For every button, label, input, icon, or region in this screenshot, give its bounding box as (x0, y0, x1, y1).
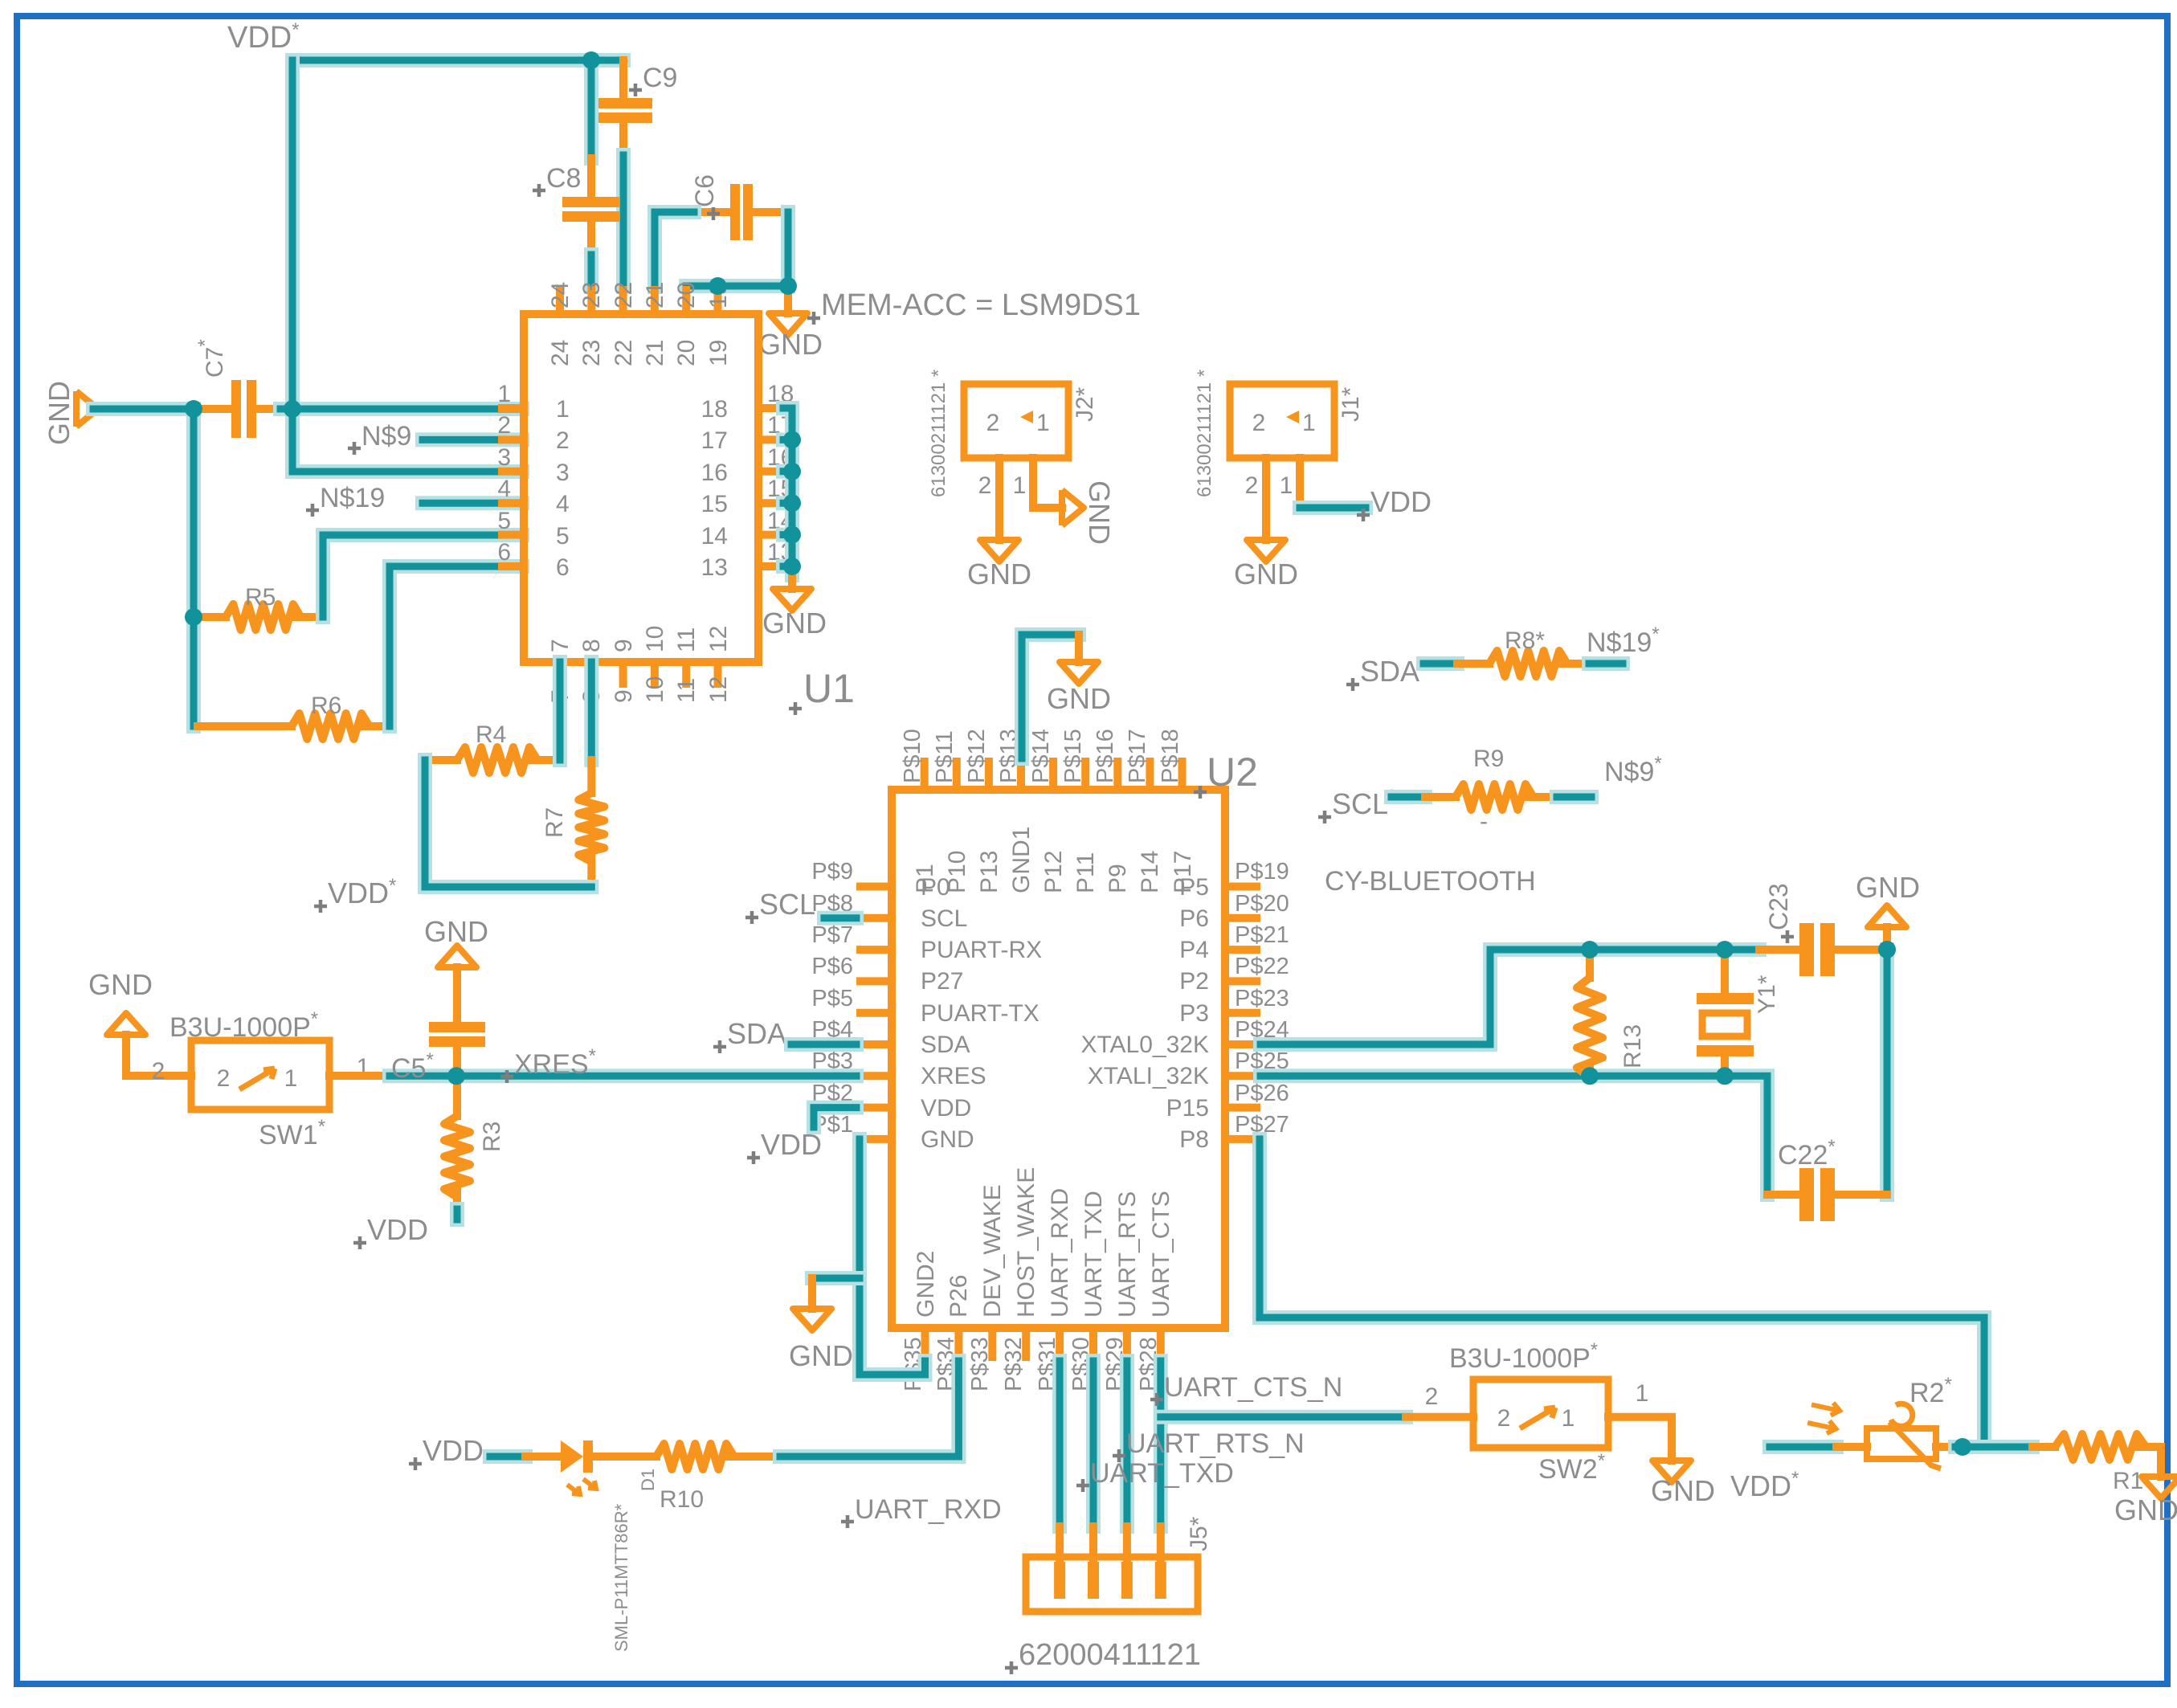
svg-text:9: 9 (611, 689, 637, 703)
junction VDD/pin1 row (284, 400, 301, 418)
wire C6 left to U1 pin 21 (655, 212, 694, 287)
resistor R5 (199, 604, 323, 630)
net label SCL (R9) (1318, 786, 1395, 823)
ground GND (crystal net) (1868, 905, 1906, 927)
svg-text:GND: GND (921, 1126, 974, 1153)
svg-text:1: 1 (1036, 410, 1050, 436)
svg-text:17: 17 (701, 427, 728, 454)
crystal Y1 (1697, 950, 1754, 1076)
wire GND to C7 (93, 402, 194, 416)
svg-text:3: 3 (556, 460, 570, 486)
wire U2 P$1 GND down (860, 1139, 925, 1375)
svg-text:U1: U1 (803, 666, 855, 711)
svg-text:10: 10 (642, 676, 668, 703)
U2 pin stubs (856, 758, 1260, 1361)
resistor R13 (1577, 950, 1603, 1077)
resistor R4 (425, 747, 560, 773)
svg-text:2: 2 (152, 1058, 165, 1085)
svg-text:N$19: N$19 (320, 483, 385, 513)
svg-text:20: 20 (673, 282, 700, 309)
wire U2 P$31 to J5 (1052, 1361, 1067, 1526)
svg-text:23: 23 (578, 340, 605, 366)
wire U1 pins 19 20 GND row (686, 279, 788, 293)
svg-text:5: 5 (497, 508, 511, 534)
svg-text:C22*: C22* (1778, 1136, 1836, 1171)
wire C7 to U1 pin 1 (280, 402, 522, 416)
svg-text:P10: P10 (944, 851, 970, 893)
svg-text:UART_CTS: UART_CTS (1148, 1191, 1174, 1318)
svg-text:N$9*: N$9* (1604, 753, 1662, 787)
junction R2/R1/P$27 (1954, 1438, 1971, 1456)
svg-text:GND1: GND1 (1008, 827, 1035, 893)
svg-text:GND: GND (1651, 1474, 1715, 1507)
U1 pin numbers (497, 282, 794, 703)
svg-text:2: 2 (978, 472, 992, 499)
J5 pin lead P$30 (1089, 1526, 1097, 1562)
connector J1 body (1230, 384, 1334, 458)
label C8 (533, 163, 581, 197)
net label UART_CTS_N (1150, 1372, 1342, 1406)
junction C23 right / GND (1878, 941, 1896, 958)
svg-text:1: 1 (1302, 410, 1316, 436)
net label VDD (LED) (409, 1434, 484, 1470)
crystal gnd lead (1883, 927, 1891, 950)
svg-text:1: 1 (1280, 472, 1293, 499)
IC U2 body (892, 790, 1225, 1328)
SW1 inside symbols (217, 1065, 298, 1092)
svg-text:UART_TXD: UART_TXD (1090, 1458, 1234, 1489)
label R2 (1909, 1374, 1952, 1408)
ground GND (below U2 P$1) (789, 1309, 853, 1372)
svg-text:GND: GND (2114, 1493, 2177, 1526)
svg-text:CY-BLUETOOTH: CY-BLUETOOTH (1325, 866, 1536, 897)
J5 pin lead P$31 (1056, 1526, 1064, 1562)
J5 pin lead P$28 (1157, 1526, 1165, 1562)
wire VDD junction down to C8 (584, 67, 598, 158)
svg-text:2: 2 (1497, 1405, 1511, 1432)
U2 ref cross (1194, 786, 1207, 799)
svg-text:GND: GND (967, 558, 1031, 590)
label C6 (690, 174, 720, 220)
U1 ref cross (789, 702, 802, 715)
net label XRES (500, 1045, 596, 1083)
wire N$9 to U1 pin 2 (423, 432, 522, 447)
wire U1 pin8 down to R7 (584, 662, 598, 760)
svg-text:D1: D1 (638, 1469, 658, 1491)
svg-text:24: 24 (547, 340, 574, 366)
svg-text:R5: R5 (245, 584, 276, 611)
svg-text:GND: GND (88, 968, 153, 1001)
svg-text:MEM-ACC = LSM9DS1: MEM-ACC = LSM9DS1 (821, 288, 1141, 322)
capacitor C22 (1767, 1168, 1887, 1221)
ground GND (R1) (2114, 1477, 2177, 1526)
R1 gnd lead (2157, 1447, 2165, 1477)
svg-text:P$12: P$12 (964, 729, 990, 783)
svg-text:P$5: P$5 (811, 986, 853, 1011)
svg-text:GND: GND (762, 607, 827, 639)
svg-text:9: 9 (611, 639, 637, 652)
svg-text:R9: R9 (1473, 746, 1504, 772)
svg-text:C8: C8 (546, 163, 581, 194)
svg-text:22: 22 (611, 282, 637, 309)
svg-text:3: 3 (497, 444, 511, 471)
LED D1 (525, 1440, 596, 1494)
svg-text:5: 5 (556, 523, 570, 550)
SW1 pin1 lead (329, 1072, 390, 1080)
label SW1 (259, 1116, 325, 1150)
svg-text:15: 15 (701, 491, 728, 517)
junction XRES/C5/R3 (447, 1067, 465, 1085)
net label VDD (J1) (1357, 485, 1432, 521)
junction U1 right bus y705 (783, 558, 801, 575)
svg-text:SDA: SDA (727, 1017, 786, 1050)
J2 pin2 gnd lead (995, 458, 1003, 540)
wire R5 to U1 pin 5 (323, 535, 522, 617)
connector J5 body (1026, 1557, 1198, 1612)
svg-text:SCL: SCL (759, 888, 815, 921)
svg-text:P26: P26 (946, 1275, 972, 1318)
net label UART_RTS_N (1113, 1428, 1305, 1462)
switch SW2 body (1473, 1379, 1608, 1448)
ground GND (left, by C7) (76, 391, 98, 427)
svg-text:16: 16 (701, 460, 728, 486)
svg-text:VDD: VDD (367, 1213, 428, 1246)
wire C9 to U1 pin 22 (616, 155, 631, 287)
svg-text:XTALI_32K: XTALI_32K (1088, 1063, 1209, 1089)
svg-text:4: 4 (556, 491, 570, 517)
svg-text:N$19*: N$19* (1587, 623, 1660, 658)
svg-text:P2: P2 (1179, 968, 1209, 995)
svg-text:UART_RXD: UART_RXD (855, 1494, 1002, 1525)
wire SDA to R8 (1423, 656, 1457, 671)
J1 pin2 gnd lead (1262, 458, 1270, 540)
wire R10 to U2 P$34 (780, 1361, 958, 1457)
svg-text:P$10: P$10 (900, 729, 925, 783)
U1 pin stubs (498, 286, 784, 688)
svg-text:J2*: J2* (1072, 386, 1098, 422)
capacitor C9 (594, 60, 652, 155)
wire U2 GND1 up (1022, 635, 1079, 758)
svg-text:GND: GND (758, 328, 823, 361)
resistor R10 (593, 1444, 780, 1469)
J1 inside pin marks (1252, 410, 1316, 436)
switch SW1 body (191, 1040, 329, 1109)
SW1 pin2 lead (126, 1035, 191, 1076)
capacitor C8 (562, 158, 620, 255)
wire C6 right down (781, 212, 795, 286)
svg-text:R10: R10 (660, 1486, 704, 1513)
net label N$19 (R8) (1587, 623, 1660, 658)
net label SDA (R8) (1346, 653, 1427, 691)
net label N$9 (R9) (1604, 753, 1662, 787)
ground GND (SW1 pin2) (107, 1013, 145, 1035)
svg-text:C6: C6 (690, 174, 719, 207)
svg-text:2: 2 (497, 412, 511, 439)
net label SDA (U2) (713, 1017, 786, 1053)
svg-text:P$32: P$32 (1001, 1337, 1027, 1391)
wire SDA to U2 (791, 1037, 856, 1052)
U2 GND1 lead (1075, 635, 1083, 662)
svg-text:P13: P13 (976, 851, 1003, 893)
wire U2 P$27 to R2 node (1260, 1139, 1984, 1447)
svg-text:P$16: P$16 (1093, 729, 1118, 783)
net label UART_TXD (1076, 1458, 1234, 1492)
svg-text:11: 11 (673, 627, 700, 652)
svg-text:P$11: P$11 (932, 730, 958, 783)
net label VDD (R2) (1730, 1468, 1799, 1502)
svg-text:P8: P8 (1179, 1126, 1209, 1153)
svg-text:SDA: SDA (921, 1032, 970, 1058)
svg-text:P9: P9 (1105, 864, 1131, 893)
ground GND (J2 pin2) (967, 540, 1031, 590)
junction C7/GND branch (185, 400, 202, 418)
SW2 pin2 lead (1406, 1413, 1473, 1421)
svg-text:22: 22 (611, 340, 637, 366)
J2 inside pin marks (986, 410, 1050, 436)
text MEM-ACC = LSM9DS1 (807, 288, 1141, 325)
svg-text:VDD: VDD (1370, 485, 1432, 518)
svg-text:1: 1 (497, 381, 511, 407)
svg-text:P$21: P$21 (1235, 922, 1289, 948)
junction U1 right bus y547 (783, 431, 801, 448)
svg-text:1: 1 (1636, 1380, 1649, 1407)
U2 pin labels (811, 729, 1289, 1391)
net label VDD (U2 P$2) (747, 1128, 822, 1164)
svg-text:J1*: J1* (1338, 386, 1364, 422)
svg-text:GND: GND (1234, 558, 1298, 590)
SW2 inside symbols (1497, 1405, 1575, 1432)
svg-text:GND2: GND2 (913, 1251, 939, 1318)
svg-text:P6: P6 (1179, 905, 1209, 932)
svg-text:8: 8 (578, 639, 605, 652)
svg-text:12: 12 (705, 626, 732, 652)
J1 pin1 lead (1296, 458, 1304, 508)
net label VDD (R3) (353, 1213, 428, 1249)
junction R13 bottom (1581, 1067, 1599, 1085)
svg-text:21: 21 (642, 340, 668, 366)
wire U2 P$28 to J5 (1154, 1361, 1168, 1526)
svg-text:SW2*: SW2* (1538, 1450, 1605, 1485)
label C23 (1764, 883, 1794, 943)
svg-text:11: 11 (673, 678, 700, 703)
resistor R9 (1425, 784, 1557, 810)
svg-text:2: 2 (217, 1065, 231, 1092)
label C22 (1778, 1136, 1836, 1171)
svg-text:UART_RTS_N: UART_RTS_N (1126, 1428, 1305, 1459)
wire R9 to N$9 (1557, 790, 1591, 804)
capacitor C23 (1759, 923, 1887, 976)
svg-text:1: 1 (1562, 1405, 1575, 1432)
svg-text:1: 1 (1013, 472, 1027, 499)
svg-text:UART_TXD: UART_TXD (1080, 1191, 1107, 1318)
svg-text:HOST_WAKE: HOST_WAKE (1013, 1167, 1039, 1318)
svg-text:P$7: P$7 (811, 922, 853, 948)
wire XRES from SW1 to U2 (390, 1069, 856, 1083)
IC U1 body (524, 314, 758, 662)
svg-text:P$9: P$9 (811, 859, 853, 885)
SW2 pin1 lead (1608, 1417, 1672, 1461)
svg-text:13: 13 (701, 554, 728, 581)
label 62000411121 (1005, 1638, 1201, 1674)
svg-text:P$6: P$6 (811, 954, 853, 979)
label C7 (194, 339, 228, 378)
svg-text:P4: P4 (1179, 937, 1209, 963)
wire U2 P$29 to J5 (1120, 1361, 1134, 1526)
junction VDD/C8 (582, 51, 600, 69)
svg-text:1: 1 (556, 396, 570, 423)
svg-text:18: 18 (701, 396, 728, 423)
ground GND (J1 pin2) (1234, 540, 1298, 590)
svg-text:6: 6 (556, 554, 570, 581)
wire R3 to VDD (450, 1209, 464, 1220)
svg-text:P1: P1 (912, 864, 938, 893)
svg-text:2: 2 (1252, 410, 1266, 436)
svg-text:P15: P15 (1166, 1095, 1209, 1122)
junction U1 right bus y586 (783, 463, 801, 480)
svg-text:21: 21 (642, 282, 668, 309)
svg-text:-: - (1480, 808, 1488, 835)
svg-text:VDD: VDD (761, 1128, 822, 1161)
J2 pin1 gnd lead (1033, 458, 1062, 508)
junction Y1 bottom (1716, 1067, 1734, 1085)
svg-text:GND: GND (1047, 682, 1111, 715)
svg-text:N$9: N$9 (361, 421, 411, 452)
net label SCL (U2) (745, 888, 815, 924)
wire SCL to U2 (824, 911, 856, 926)
svg-text:R6: R6 (311, 693, 341, 719)
J1 pin labels (1245, 472, 1293, 499)
U2 P$1 gnd lead (808, 1278, 816, 1309)
svg-text:23: 23 (578, 282, 605, 309)
wire GND branch down to R5 R6 (186, 409, 201, 726)
svg-text:P$26: P$26 (1235, 1081, 1289, 1106)
svg-text:GND: GND (43, 381, 76, 445)
svg-text:P17: P17 (1170, 851, 1196, 893)
svg-text:UART_CTS_N: UART_CTS_N (1164, 1372, 1342, 1403)
svg-text:62000411121: 62000411121 (1019, 1638, 1201, 1672)
svg-text:1: 1 (284, 1065, 298, 1092)
wire XTAL0 from U2 P$24 (1260, 950, 1759, 1044)
svg-text:7: 7 (547, 639, 574, 652)
wire C8 to U1 pin 23 (584, 255, 598, 287)
svg-text:P3: P3 (1179, 1000, 1209, 1027)
junction R5 left (185, 608, 202, 626)
wire XTALI from U2 P$25 (1260, 1076, 1767, 1195)
J2 pin labels (978, 472, 1027, 499)
svg-text:R1: R1 (2113, 1468, 2143, 1494)
svg-text:PUART-TX: PUART-TX (921, 1000, 1039, 1027)
wire VDD vertical to U1 pin 3 (292, 60, 522, 472)
junction C6 right/gnd row (779, 277, 797, 295)
SW1 outside pin numbers (152, 1054, 370, 1085)
svg-text:VDD*: VDD* (227, 19, 300, 55)
resistor R6 (198, 713, 390, 739)
svg-text:14: 14 (701, 523, 728, 550)
ground GND (SW2 pin1) (1651, 1461, 1715, 1507)
svg-text:24: 24 (547, 282, 574, 309)
net label UART_RXD (841, 1494, 1002, 1528)
svg-text:2: 2 (1425, 1383, 1439, 1410)
svg-text:P$22: P$22 (1235, 954, 1289, 979)
svg-text:2: 2 (556, 427, 570, 454)
ground GND (above U2) (1047, 662, 1111, 715)
wire U1 pin7 down to R4 (553, 662, 567, 760)
svg-text:GND: GND (1083, 480, 1116, 545)
wire R4 left down and across to R7 (425, 760, 591, 887)
SW2 outside pin numbers (1425, 1380, 1649, 1410)
svg-text:VDD: VDD (921, 1095, 971, 1122)
svg-text:P14: P14 (1137, 851, 1163, 893)
label B3U-1000P (SW2) (1449, 1339, 1598, 1374)
junction R13 top (1581, 941, 1599, 958)
svg-text:PUART-RX: PUART-RX (921, 937, 1042, 963)
svg-text:P11: P11 (1072, 852, 1099, 893)
junction U1 right bus y626 (783, 494, 801, 512)
svg-text:2: 2 (1245, 472, 1259, 499)
net label N$19 (306, 483, 385, 517)
svg-text:XRES: XRES (921, 1063, 986, 1089)
svg-text:61300211121 *: 61300211121 * (928, 370, 950, 497)
svg-text:6: 6 (497, 539, 511, 566)
svg-text:R7: R7 (541, 807, 568, 838)
wire VDD to LED (490, 1449, 525, 1464)
svg-text:Y1*: Y1* (1754, 975, 1780, 1014)
svg-text:UART_RXD: UART_RXD (1047, 1188, 1073, 1318)
photoresistor R2 (1807, 1399, 1955, 1469)
svg-text:20: 20 (673, 340, 700, 366)
svg-text:VDD: VDD (423, 1434, 484, 1467)
svg-text:XTAL0_32K: XTAL0_32K (1080, 1032, 1209, 1058)
svg-text:61300211121 *: 61300211121 * (1194, 370, 1215, 497)
svg-text:SCL: SCL (921, 905, 967, 932)
svg-text:SML-P11MTT86R*: SML-P11MTT86R* (611, 1503, 631, 1652)
wire VDD stub to R2 (1770, 1440, 1836, 1454)
ground GND (below U1 right) (762, 589, 827, 639)
resistor R7 (578, 760, 604, 887)
ground lead below U1 right (788, 575, 796, 589)
net label VDD (top left) (227, 19, 300, 55)
svg-text:B3U-1000P*: B3U-1000P* (170, 1008, 318, 1043)
svg-text:P$15: P$15 (1060, 729, 1086, 783)
svg-text:UART_RTS: UART_RTS (1114, 1191, 1141, 1318)
wire U1 right pins bus (783, 408, 792, 575)
svg-text:P$19: P$19 (1235, 859, 1289, 885)
svg-text:R8*: R8* (1505, 627, 1545, 654)
net label VDD (R4 net) (314, 875, 396, 913)
svg-text:P$33: P$33 (967, 1337, 993, 1391)
junction pin19/gnd row (709, 277, 727, 295)
wire R8 to N$19 (1589, 656, 1623, 671)
wire R2 to R1 (1955, 1440, 2032, 1454)
svg-text:P$20: P$20 (1235, 891, 1289, 917)
wire N$19 to U1 pin 4 (423, 496, 522, 510)
svg-text:P$14: P$14 (1028, 729, 1054, 783)
svg-text:GND: GND (1856, 871, 1920, 904)
svg-text:12: 12 (705, 676, 732, 703)
svg-text:R3: R3 (479, 1122, 505, 1152)
svg-text:19: 19 (705, 340, 732, 366)
wire J1 pin1 to VDD (1300, 501, 1366, 515)
svg-text:DEV_WAKE: DEV_WAKE (979, 1184, 1006, 1318)
svg-text:VDD*: VDD* (328, 875, 396, 909)
svg-text:R13: R13 (1619, 1024, 1646, 1069)
svg-text:GND: GND (789, 1339, 853, 1372)
connector J2 body (964, 384, 1068, 458)
svg-text:P$18: P$18 (1158, 729, 1183, 783)
wire R6 to U1 pin 6 (390, 566, 522, 726)
capacitor C7 (199, 380, 280, 438)
capacitor C6 (694, 184, 788, 240)
